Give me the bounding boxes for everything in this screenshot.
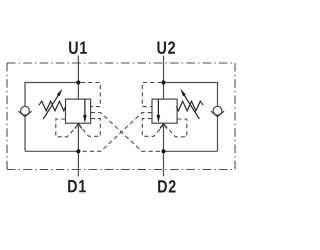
node junction D1: [76, 149, 80, 153]
V2 internal flow arrow (down): [157, 99, 161, 123]
relief valve V1 body (left): [66, 99, 91, 123]
V1 spring: [39, 101, 66, 111]
V1 spring chamber drain (dashed left elbow to D1 line): [56, 119, 78, 137]
wire U2 vertical line: [163, 56, 165, 100]
node junction U2: [161, 80, 165, 84]
wire U1 branch to left check valve: [25, 83, 78, 152]
V2 crossover pilot from D1 (dashed diagonal): [81, 113, 151, 152]
relief valve V2 body (right): [152, 99, 177, 123]
port label D2: [158, 180, 175, 192]
V1 drain path right side (dashed bracket to D1 line): [79, 119, 101, 137]
node junction D2: [161, 149, 165, 153]
V1 pilot line from U1 (dashed elbow to box right side): [81, 83, 101, 107]
V2 adjustment arrow: [180, 89, 199, 119]
port label D1: [68, 180, 86, 192]
V1 adjustment arrow: [43, 89, 62, 119]
V1 crossover pilot from D2 (dashed diagonal): [91, 113, 161, 152]
V1 internal flow arrow (down): [83, 99, 87, 123]
wire U2 branch to right check valve: [164, 83, 218, 152]
port label U1: [69, 42, 87, 54]
wire D2 bottom line from check valve to junction: [164, 150, 218, 152]
V2 drain path left side (dashed bracket to D2 line): [142, 119, 164, 137]
V2 inlet arrow (up, below box): [160, 124, 167, 129]
wire D2 vertical line: [163, 123, 165, 176]
port label U2: [157, 41, 175, 54]
wire U1 vertical line: [77, 56, 79, 100]
wire D1 bottom line from check valve to junction: [25, 150, 78, 152]
node junction U1: [76, 80, 80, 84]
V2 spring: [177, 101, 204, 111]
V2 spring chamber drain (dashed right elbow to D2 line): [165, 119, 187, 137]
check valve CV2 (right, ball and seat): [211, 106, 224, 116]
wire D1 vertical line: [77, 123, 79, 176]
V1 inlet arrow (up, below box): [75, 124, 82, 129]
enclosure dash-dot boundary box: [7, 63, 235, 170]
check valve CV1 (left, ball and seat): [18, 106, 31, 116]
V2 pilot line from U2 (dashed elbow to box left side): [142, 83, 162, 107]
